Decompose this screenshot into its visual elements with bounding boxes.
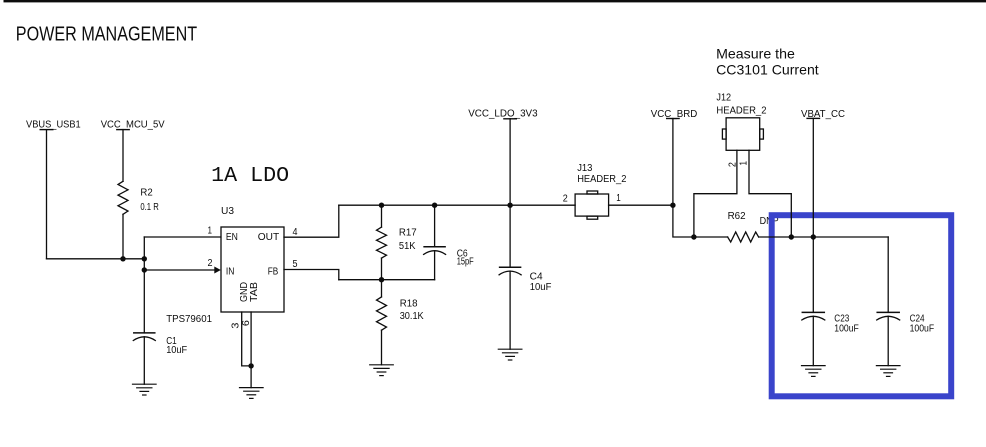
svg-text:100uF: 100uF [834,324,859,335]
wire EN feed vertical [143,237,145,333]
svg-text:10uF: 10uF [166,345,187,356]
capacitor C23 [802,237,825,366]
wire IN pin2 [144,269,214,271]
ground C4 [498,349,522,360]
wire rail after R62 [759,236,889,238]
svg-text:5: 5 [293,259,298,270]
ground C1 [133,384,157,395]
connector J12 [722,118,763,151]
resistor R62 [728,232,759,242]
svg-text:Measure the: Measure the [716,45,795,61]
wire top rail VCC_LDO_3V3 [339,204,575,206]
junction dot J12 left leg [691,234,696,239]
svg-text:1: 1 [616,193,621,204]
svg-text:4: 4 [293,227,298,238]
wire J13 pin1 to VCC_BRD [609,204,673,206]
svg-text:J13: J13 [577,163,593,174]
svg-text:VBUS_USB1: VBUS_USB1 [26,120,81,131]
junction dot R2 bottom [120,256,125,261]
svg-text:3: 3 [231,322,242,328]
svg-text:OUT: OUT [258,232,279,243]
junction dot C4 top [507,203,512,208]
connector J13 [575,191,609,219]
net VCC_MCU_5V [101,120,165,131]
label R17 51K [399,227,417,252]
svg-text:VCC_MCU_5V: VCC_MCU_5V [101,120,165,131]
junction dot IN feed [142,267,147,272]
svg-text:J12: J12 [716,92,731,103]
svg-text:FB: FB [268,267,279,278]
svg-text:10uF: 10uF [530,282,552,293]
wire VCC_MCU_5V vertical [122,130,124,182]
svg-text:2: 2 [208,258,213,269]
net VCC_LDO_3V3 [468,109,538,120]
wire C1 to ground [143,337,145,384]
svg-text:30.1K: 30.1K [400,311,424,322]
svg-text:2: 2 [563,194,568,205]
wire VCC_BRD vertical [673,119,728,238]
net VCC_BRD [651,109,698,120]
junction dot VCC_BRD [670,203,675,208]
label R2 0.1 R [140,188,158,213]
svg-text:R17: R17 [399,227,417,238]
wire VBUS_USB1 vertical [46,130,48,259]
junction dot C6 top [432,203,437,208]
junction dot EN feed [142,256,147,261]
wire J12 pin2 leg [694,150,737,237]
capacitor C24 [877,237,900,366]
net VBUS_USB1 [26,120,81,131]
resistor R18 [377,280,387,365]
svg-text:POWER MANAGEMENT: POWER MANAGEMENT [16,24,197,46]
svg-text:R18: R18 [400,298,418,309]
capacitor C1 [133,333,155,341]
wire pin6 stub to ground [250,312,252,388]
top border rule [4,0,986,2]
junction dot pins 3-6 [248,363,253,368]
label C23 100uF [834,314,859,335]
capacitor C4 [499,267,521,349]
svg-text:1: 1 [208,226,213,237]
svg-text:R2: R2 [140,188,153,199]
wire VBAT_CC vertical [812,118,814,237]
svg-text:C4: C4 [530,272,543,283]
wire J12 pin1 leg [749,150,791,237]
resistor R17 [377,205,387,280]
svg-text:VCC_LDO_3V3: VCC_LDO_3V3 [468,109,538,120]
net VBAT_CC [801,109,845,120]
junction dot J12 right leg [789,234,794,239]
svg-text:HEADER_2: HEADER_2 [577,174,627,185]
capacitor C6 [424,205,446,280]
svg-text:TPS79601: TPS79601 [166,314,212,325]
ground C23 [802,366,826,377]
svg-text:0.1 R: 0.1 R [140,202,158,213]
label C4 10uF [530,272,552,293]
svg-text:R62: R62 [728,211,746,222]
label J13 HEADER_2 [577,163,627,185]
label C6 15pF [457,249,474,268]
ground U3 [240,388,264,399]
svg-text:TAB: TAB [249,282,260,302]
wire pin3 stub [242,312,251,366]
svg-text:1: 1 [739,161,750,166]
label C1 10uF [166,336,187,356]
svg-text:1A LDO: 1A LDO [211,165,289,188]
svg-text:51K: 51K [399,241,416,252]
junction dot VBAT_CC rail [811,234,816,239]
wire EN pin1 [144,236,221,238]
svg-text:HEADER_2: HEADER_2 [716,105,767,116]
svg-text:CC3101 Current: CC3101 Current [716,62,819,78]
wire VCC_LDO_3V3 vertical [509,119,511,267]
junction dot R18 top [379,277,384,282]
wire FB rail [339,279,435,281]
svg-text:100uF: 100uF [910,324,935,335]
highlight box blue [772,215,952,396]
svg-text:EN: EN [226,232,238,243]
wire FB pin5 [284,270,339,280]
wire R2 bottom lead [122,214,124,258]
resistor R2 [118,181,128,214]
label C24 100uF [910,314,935,335]
note Measure the CC3101 Current [716,45,819,77]
svg-text:U3: U3 [221,206,234,217]
junction dot R17 top [379,203,384,208]
label R18 30.1K [400,298,424,322]
label J12 HEADER_2 [716,92,767,116]
ground R18 [370,365,394,376]
svg-text:15pF: 15pF [457,257,474,268]
op-amp U3 box [221,227,284,312]
arrow IN pin [214,267,221,274]
svg-text:IN: IN [226,267,235,278]
wire bottom feed horizontal [47,258,145,260]
ground C24 [876,366,900,377]
wire OUT pin4 [284,205,339,237]
